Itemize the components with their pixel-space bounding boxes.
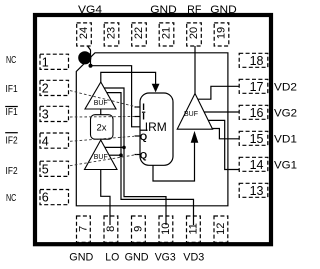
svg-text:11: 11 xyxy=(187,223,199,234)
svg-text:IF2: IF2 xyxy=(6,165,18,177)
svg-text:VG3: VG3 xyxy=(155,252,176,264)
svg-text:GND: GND xyxy=(150,4,177,16)
svg-text:VG2: VG2 xyxy=(274,108,297,120)
svg-text:Q: Q xyxy=(140,132,147,143)
svg-text:17: 17 xyxy=(250,80,264,94)
svg-text:IF1: IF1 xyxy=(6,83,18,95)
svg-text:GND: GND xyxy=(69,252,93,264)
svg-text:1: 1 xyxy=(42,55,49,69)
svg-text:18: 18 xyxy=(250,54,264,68)
svg-text:RF: RF xyxy=(187,4,202,16)
svg-text:IF2: IF2 xyxy=(6,134,18,146)
svg-text:9: 9 xyxy=(132,226,144,232)
svg-text:IRM: IRM xyxy=(145,120,167,134)
svg-text:16: 16 xyxy=(250,106,264,120)
svg-text:10: 10 xyxy=(160,223,172,235)
svg-text:I: I xyxy=(142,112,145,123)
svg-text:22: 22 xyxy=(133,27,145,39)
svg-text:BUF: BUF xyxy=(94,100,108,107)
svg-text:8: 8 xyxy=(105,226,117,232)
svg-text:15: 15 xyxy=(250,132,264,146)
svg-text:12: 12 xyxy=(215,223,227,235)
svg-text:NC: NC xyxy=(6,54,17,66)
svg-text:14: 14 xyxy=(250,158,264,172)
svg-text:IF1: IF1 xyxy=(6,106,18,118)
svg-text:21: 21 xyxy=(161,27,173,39)
svg-text:6: 6 xyxy=(42,191,49,205)
svg-text:23: 23 xyxy=(106,27,118,39)
svg-text:2x: 2x xyxy=(96,123,106,134)
svg-text:BUF: BUF xyxy=(184,111,198,118)
svg-text:2: 2 xyxy=(42,81,49,95)
svg-text:13: 13 xyxy=(250,184,264,198)
svg-text:Q: Q xyxy=(140,150,147,161)
svg-text:VD3: VD3 xyxy=(183,252,204,264)
svg-text:3: 3 xyxy=(42,107,49,121)
svg-text:NC: NC xyxy=(6,192,17,204)
svg-text:VD1: VD1 xyxy=(274,134,297,146)
svg-text:VG4: VG4 xyxy=(78,4,102,16)
svg-text:VD2: VD2 xyxy=(274,82,297,94)
svg-text:GND: GND xyxy=(125,252,149,264)
svg-text:4: 4 xyxy=(42,134,49,148)
svg-text:20: 20 xyxy=(188,27,200,39)
svg-text:VG1: VG1 xyxy=(274,160,297,172)
svg-text:24: 24 xyxy=(78,27,90,39)
svg-text:GND: GND xyxy=(210,4,237,16)
svg-text:19: 19 xyxy=(216,27,228,39)
svg-text:LO: LO xyxy=(105,252,119,264)
svg-text:5: 5 xyxy=(42,162,49,176)
svg-text:7: 7 xyxy=(77,226,89,232)
